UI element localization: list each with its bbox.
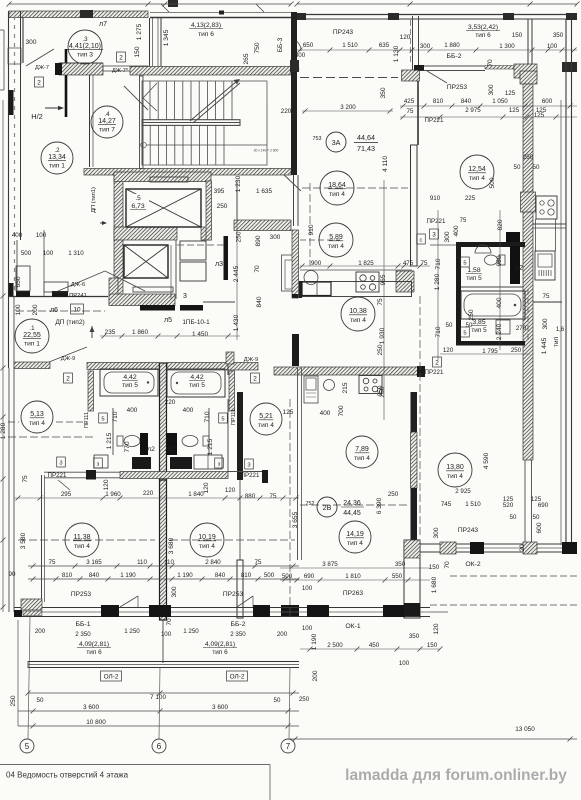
svg-text:635: 635 — [379, 42, 390, 49]
corner hatch block — [396, 271, 414, 292]
svg-text:75: 75 — [543, 293, 550, 300]
svg-text:200: 200 — [32, 304, 39, 315]
svg-text:1 280: 1 280 — [434, 273, 441, 290]
flat circle 2B — [306, 497, 365, 517]
axis dashed h422 — [8, 421, 88, 423]
svg-text:125: 125 — [283, 409, 294, 416]
stair walk line circle — [141, 142, 267, 148]
left wall window box — [8, 48, 21, 64]
dim 2500 row br — [327, 633, 437, 649]
svg-text:150: 150 — [429, 564, 440, 571]
dim 50 50 lr — [510, 514, 540, 521]
dimline y648 br — [300, 647, 443, 652]
svg-text:1ПБ-10-1: 1ПБ-10-1 — [182, 319, 210, 326]
washer box — [496, 320, 510, 334]
door black l2 — [166, 433, 177, 455]
bath2 top wall — [430, 242, 525, 247]
svg-text:ДЖ-9: ДЖ-9 — [244, 357, 258, 363]
svg-text:840: 840 — [256, 296, 263, 307]
svg-text:550: 550 — [392, 573, 403, 580]
axis dashed h190 — [302, 187, 408, 189]
elev outer top wall — [114, 172, 211, 182]
svg-text:тип 4: тип 4 — [354, 455, 370, 462]
svg-text:04 Ведомость отверстий 4 этажа: 04 Ведомость отверстий 4 этажа — [6, 771, 129, 780]
svg-text:745: 745 — [441, 501, 452, 508]
svg-text:1 050: 1 050 — [492, 98, 508, 105]
svg-text:1 680: 1 680 — [431, 576, 438, 593]
svg-text:тип 5: тип 5 — [471, 327, 487, 334]
svg-text:1 880: 1 880 — [444, 42, 460, 49]
svg-text:710: 710 — [112, 411, 119, 422]
svg-text:500: 500 — [264, 572, 275, 579]
svg-text:11,38: 11,38 — [74, 534, 91, 541]
svg-text:100: 100 — [161, 631, 172, 638]
boxed 2 c — [64, 373, 73, 383]
svg-text:50: 50 — [533, 164, 540, 171]
door diag top-left — [26, 49, 54, 66]
svg-text:2 840: 2 840 — [205, 559, 221, 566]
H2 arrow — [45, 106, 64, 110]
dimline bottom 3600 — [18, 709, 299, 714]
svg-text:ББ-3: ББ-3 — [277, 37, 284, 52]
svg-text:10,38: 10,38 — [349, 308, 367, 315]
svg-text:.3: .3 — [82, 36, 88, 43]
svg-text:250: 250 — [388, 491, 399, 498]
dimline 3200 — [302, 109, 393, 114]
svg-text:150: 150 — [134, 46, 141, 57]
axis dashed h540b — [170, 539, 295, 541]
svg-text:965: 965 — [380, 274, 387, 285]
svg-text:250: 250 — [236, 231, 243, 242]
svg-text:1 280: 1 280 — [0, 422, 7, 439]
svg-text:752: 752 — [306, 501, 315, 507]
svg-text:3: 3 — [432, 231, 436, 238]
corridor wall x292 hatch — [292, 230, 299, 298]
window band BL lines — [14, 608, 299, 617]
boxed 10 — [71, 304, 84, 314]
svg-text:840: 840 — [215, 572, 226, 579]
dim 400 100 row — [12, 232, 47, 239]
svg-text:120: 120 — [225, 487, 236, 494]
dim 500 100 1310 row — [21, 250, 84, 257]
svg-text:75: 75 — [407, 108, 414, 115]
svg-text:ПР221: ПР221 — [425, 117, 444, 124]
elev bottom corner — [109, 278, 118, 305]
party wall black seg — [292, 334, 299, 366]
svg-text:110: 110 — [137, 559, 147, 566]
sink right strip — [535, 251, 555, 280]
axis dashed h540 — [18, 539, 155, 541]
svg-text:6 390: 6 390 — [376, 497, 383, 514]
svg-text:200: 200 — [35, 628, 46, 635]
left vert dimline — [1, 100, 6, 612]
window band BL pier5 — [281, 605, 299, 617]
black pier top edge — [168, 0, 178, 7]
boxed OL-2 a — [101, 671, 122, 681]
axis dashed v420 — [419, 296, 421, 538]
cabinet left outline — [94, 455, 108, 468]
svg-text:тип 1: тип 1 — [24, 341, 40, 348]
svg-text:5: 5 — [463, 330, 466, 336]
svg-text:120: 120 — [103, 479, 110, 490]
top band pier2 — [388, 13, 399, 20]
svg-text:2 975: 2 975 — [465, 107, 481, 114]
stove centre — [356, 272, 379, 292]
room circle 13_80 — [438, 453, 472, 487]
window band BR lines — [280, 608, 430, 617]
dimline bottom 13050 — [290, 737, 577, 742]
left outer wall lower — [9, 368, 14, 612]
corridor dashed y245 — [177, 244, 224, 246]
svg-text:ДЖ-7: ДЖ-7 — [35, 65, 49, 71]
svg-text:350: 350 — [409, 633, 420, 640]
svg-text:70: 70 — [166, 618, 173, 626]
svg-text:.2: .2 — [54, 147, 60, 154]
top room label — [189, 22, 223, 38]
svg-text:4,42: 4,42 — [123, 374, 136, 381]
stair treads — [142, 81, 267, 165]
svg-text:220: 220 — [143, 490, 154, 497]
bath2 bottom wall — [456, 341, 525, 346]
vert wall x411 mid — [411, 145, 418, 266]
window band R pier2 — [470, 542, 484, 554]
door swing BL1 — [120, 596, 138, 607]
svg-text:ПР253: ПР253 — [447, 84, 467, 91]
leader 295 — [58, 480, 70, 490]
closet 650 box — [16, 266, 68, 292]
wall x300 lower seg — [298, 368, 302, 560]
wall pier hatch x411 — [402, 65, 425, 81]
svg-text:890: 890 — [255, 235, 262, 246]
svg-text:ПР221: ПР221 — [48, 472, 67, 479]
svg-text:3 165: 3 165 — [86, 559, 102, 566]
wall x237 lower — [237, 392, 243, 560]
svg-text:90: 90 — [9, 571, 16, 578]
svg-text:10 800: 10 800 — [86, 719, 106, 726]
room4 left wall — [90, 75, 94, 167]
svg-text:5: 5 — [463, 260, 466, 266]
wall x240 seg2 — [237, 560, 243, 618]
bath block side walls — [88, 371, 235, 411]
boxed 3 e — [57, 457, 66, 467]
svg-text:4 110: 4 110 — [382, 156, 389, 172]
party wall lowest — [162, 620, 164, 663]
svg-text:125: 125 — [509, 107, 520, 114]
svg-text:265: 265 — [243, 53, 250, 64]
svg-text:13,80: 13,80 — [446, 464, 464, 471]
svg-text:тип 4: тип 4 — [350, 317, 366, 324]
top band pier3 — [503, 13, 514, 20]
svg-text:ББ-2: ББ-2 — [447, 53, 462, 60]
wall bottom room1 hatched — [14, 362, 50, 369]
svg-text:22,55: 22,55 — [23, 332, 41, 339]
svg-text:2 350: 2 350 — [75, 631, 91, 638]
svg-text:3 600: 3 600 — [212, 704, 228, 711]
svg-text:125: 125 — [505, 90, 516, 97]
svg-text:л7: л7 — [99, 21, 107, 28]
svg-text:50: 50 — [37, 697, 44, 704]
machine room small rects — [180, 241, 206, 281]
svg-text:690: 690 — [304, 573, 315, 580]
svg-text:ПР253: ПР253 — [223, 591, 243, 598]
svg-text:6,73: 6,73 — [131, 203, 144, 210]
svg-text:150: 150 — [427, 642, 438, 649]
svg-text:4 590: 4 590 — [483, 452, 490, 469]
door diag room4 — [124, 86, 148, 110]
corridor wall y471 ext — [228, 470, 268, 483]
svg-text:тип 4: тип 4 — [199, 543, 215, 550]
vert wall x417 below — [417, 81, 419, 145]
svg-text:ДП (тип1): ДП (тип1) — [91, 187, 97, 213]
door diag stair exit — [281, 172, 301, 191]
door black l1 — [140, 433, 148, 455]
dim 2975 row — [407, 107, 547, 115]
svg-text:75: 75 — [460, 218, 467, 224]
svg-text:690: 690 — [538, 502, 549, 509]
svg-text:3: 3 — [59, 460, 62, 466]
svg-text:500: 500 — [489, 177, 496, 188]
svg-text:710: 710 — [204, 411, 211, 422]
svg-text:120: 120 — [433, 623, 440, 634]
axis circle 7 — [281, 739, 295, 753]
svg-text:75: 75 — [49, 559, 56, 566]
svg-text:400: 400 — [320, 410, 331, 417]
hall partition x228 — [227, 399, 229, 471]
cabinet right black — [170, 457, 192, 469]
svg-text:3 580: 3 580 — [20, 532, 27, 549]
bath row bottom wall2 — [44, 470, 120, 480]
door diag dzh9 — [49, 347, 87, 362]
room circle 12_54 — [460, 155, 494, 189]
svg-text:150: 150 — [512, 32, 523, 39]
svg-text:880: 880 — [245, 493, 256, 500]
svg-text:13 050: 13 050 — [515, 726, 535, 733]
dim 125 125 lr — [503, 496, 542, 503]
wall H2 thick vertical — [65, 49, 68, 117]
bath right label — [189, 374, 205, 389]
party wall lower — [160, 480, 167, 620]
bath row top wall — [87, 363, 258, 371]
kitchen counter — [300, 282, 412, 297]
bath row bottom wall hatched — [120, 472, 228, 479]
svg-text:ПР263: ПР263 — [343, 590, 363, 597]
svg-text:24,36: 24,36 — [343, 500, 361, 507]
kitchen wall y268 — [300, 269, 412, 271]
svg-text:2: 2 — [66, 375, 70, 382]
boxed 5 c — [219, 413, 228, 423]
svg-text:120: 120 — [400, 34, 411, 41]
svg-text:1 215: 1 215 — [207, 438, 214, 455]
cabinet left black — [132, 457, 151, 469]
dim 75 k — [377, 260, 428, 306]
label 409 a — [77, 641, 111, 656]
svg-text:3,85: 3,85 — [472, 319, 485, 326]
corridor wall x293 below stair — [294, 175, 299, 226]
partition room3/stair — [150, 18, 162, 66]
svg-text:650: 650 — [15, 276, 22, 287]
svg-text:тип 6: тип 6 — [212, 649, 228, 656]
bathtub left — [100, 369, 158, 396]
svg-text:14,27: 14,27 — [98, 118, 116, 125]
svg-text:5,21: 5,21 — [259, 413, 273, 420]
svg-text:250: 250 — [523, 154, 534, 161]
svg-text:225: 225 — [465, 195, 476, 202]
axis circle 6 — [152, 739, 166, 753]
elev bottom wall — [109, 294, 175, 306]
wall seg right of sill — [103, 66, 148, 71]
svg-text:5,89: 5,89 — [329, 234, 343, 241]
window band BR pier2 — [383, 603, 420, 617]
boxed 3 b — [215, 458, 224, 468]
room 5 label — [127, 194, 149, 211]
svg-text:600: 600 — [542, 98, 553, 105]
elev mid wall right stub — [201, 227, 211, 240]
svg-text:тип 4: тип 4 — [74, 543, 90, 550]
right big wall hatched — [521, 84, 536, 460]
svg-text:840: 840 — [89, 572, 100, 579]
wc right — [182, 436, 209, 447]
flat circle 3A — [313, 132, 379, 153]
elev bottom black bar2 — [180, 305, 203, 311]
svg-text:14,19: 14,19 — [346, 531, 364, 538]
window band R pier1 — [440, 542, 456, 554]
top dimline right y4 — [295, 2, 580, 7]
svg-text:3,53(2,42): 3,53(2,42) — [468, 24, 498, 31]
window band BR pier1 — [307, 605, 329, 617]
svg-text:2: 2 — [119, 54, 123, 61]
svg-text:2 925: 2 925 — [455, 488, 471, 495]
svg-text:125: 125 — [534, 112, 545, 119]
svg-text:ПР221: ПР221 — [241, 472, 260, 479]
svg-text:75: 75 — [22, 475, 29, 483]
kitchen2 sink — [304, 376, 318, 403]
wall below elev — [203, 301, 235, 303]
outer wall top-left hatched — [9, 11, 148, 18]
dimline y335 lift — [100, 334, 240, 339]
elev bottom black bar1 — [140, 305, 175, 311]
door arc stair top — [294, 40, 301, 51]
svg-text:5: 5 — [25, 742, 30, 751]
svg-text:ПР253: ПР253 — [71, 591, 91, 598]
boxed 2 b — [117, 52, 126, 62]
right strip counter lines — [536, 219, 556, 251]
balcony lines bottom — [28, 661, 299, 668]
dimline y354 crb — [440, 353, 530, 355]
svg-text:810: 810 — [241, 572, 252, 579]
svg-text:1 230: 1 230 — [235, 175, 242, 192]
svg-text:ПР111: ПР111 — [84, 412, 90, 428]
stair top wall hatched — [130, 67, 291, 76]
dim row y577 — [62, 572, 275, 579]
svg-text:2 500: 2 500 — [327, 642, 343, 649]
dimline y45 tr — [297, 48, 577, 53]
svg-text:2 350: 2 350 — [230, 631, 246, 638]
svg-text:ОЛ-2: ОЛ-2 — [230, 673, 245, 680]
svg-text:1 250: 1 250 — [183, 628, 199, 635]
room circle 7_89 — [346, 436, 378, 468]
dimline y116 tr — [400, 115, 577, 120]
svg-text:л2: л2 — [515, 265, 523, 272]
svg-text:5: 5 — [221, 416, 224, 422]
svg-text:2: 2 — [435, 359, 439, 366]
svg-text:4,41(2,10): 4,41(2,10) — [69, 43, 101, 50]
lift lobby partition — [171, 240, 176, 299]
label 353 — [466, 24, 500, 39]
room circle 18_64 — [320, 171, 354, 205]
kitchen2 wall band — [274, 366, 425, 377]
elev top slab marks — [133, 177, 188, 292]
boxed 3 c — [94, 458, 103, 468]
svg-text:250: 250 — [217, 203, 228, 210]
door swing BL2 — [237, 596, 253, 607]
wall x410 lowest — [404, 540, 420, 618]
band pier left black — [290, 60, 299, 72]
svg-text:70: 70 — [444, 561, 451, 569]
label 158 — [466, 267, 482, 282]
axis dashed h311 — [16, 310, 105, 312]
boxed OL-2 b — [227, 671, 248, 681]
pier hatched col-top — [520, 71, 537, 84]
svg-text:700: 700 — [338, 405, 345, 416]
svg-text:л3: л3 — [215, 261, 223, 268]
svg-text:250: 250 — [377, 344, 384, 355]
svg-text:75: 75 — [270, 493, 277, 500]
window band BL pier1 — [14, 599, 42, 617]
top band line2 — [297, 18, 577, 20]
dimline y106 tr — [400, 104, 577, 109]
svg-text:1 190: 1 190 — [177, 572, 193, 579]
svg-text:4,13(2,83): 4,13(2,83) — [191, 22, 221, 29]
band BB2 hatched — [485, 62, 577, 78]
svg-text:295: 295 — [61, 491, 72, 498]
stove right — [536, 196, 557, 219]
label BB-1 — [75, 621, 91, 638]
svg-text:тип 4: тип 4 — [347, 540, 363, 547]
svg-text:ОК-1: ОК-1 — [345, 623, 361, 630]
svg-text:тип 4: тип 4 — [447, 473, 463, 480]
svg-text:220: 220 — [281, 108, 292, 115]
svg-text:ПР243: ПР243 — [458, 527, 478, 534]
dimline bath row y498 — [14, 496, 299, 501]
svg-text:ПР111: ПР111 — [231, 409, 237, 425]
left edge pier a — [9, 90, 14, 115]
bath2 divider — [461, 286, 523, 288]
window band BL pier3 — [149, 605, 171, 617]
svg-text:250: 250 — [511, 347, 522, 354]
svg-text:70: 70 — [487, 59, 494, 67]
svg-text:1 450: 1 450 — [192, 331, 208, 338]
right outer wall — [566, 19, 572, 545]
svg-text:.1: .1 — [29, 325, 35, 332]
bathtub right — [167, 369, 225, 397]
svg-text:350: 350 — [380, 87, 387, 98]
vert dimline x237b — [236, 180, 238, 340]
label BB-2 b — [230, 621, 246, 638]
vert dimline x438 — [437, 210, 439, 360]
svg-text:1 960: 1 960 — [105, 491, 121, 498]
svg-text:1 810: 1 810 — [345, 573, 361, 580]
axis drop right — [289, 667, 290, 739]
svg-text:300: 300 — [488, 84, 495, 95]
door swing tr — [427, 71, 447, 83]
svg-text:250: 250 — [299, 696, 310, 703]
svg-text:100: 100 — [43, 250, 54, 257]
axis dashed v290 — [289, 399, 291, 618]
kitchen2 basin — [324, 380, 335, 391]
stair arrow head — [234, 79, 241, 85]
svg-text:Н/2: Н/2 — [31, 112, 43, 121]
svg-text:1 345: 1 345 — [163, 29, 170, 46]
